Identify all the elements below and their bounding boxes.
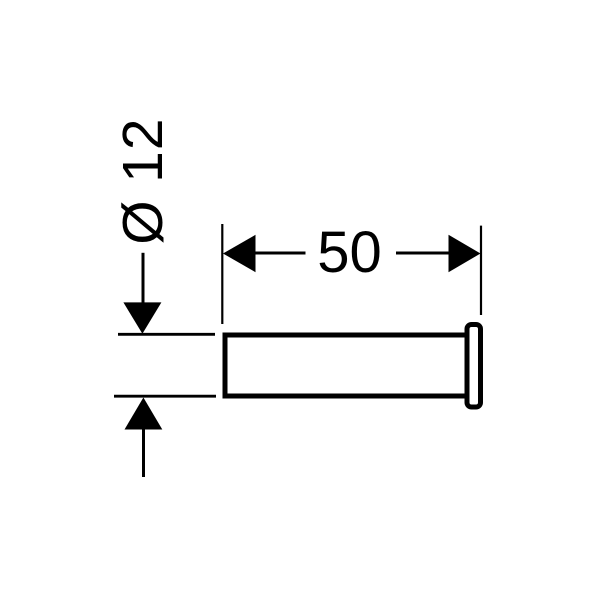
extension line right (50 dim) — [480, 226, 482, 315]
arrowhead down (points to top of body) — [123, 302, 161, 333]
extension line top (diameter) — [118, 333, 215, 336]
arrowhead right (points right) — [449, 235, 481, 272]
leader line below up arrow — [142, 429, 145, 477]
dimension line left segment — [254, 252, 306, 255]
svg-text:Ø 12: Ø 12 — [111, 118, 175, 245]
svg-text:50: 50 — [317, 220, 382, 285]
arrowhead up (points to bottom of body) — [125, 398, 163, 430]
flange cap at right end — [467, 325, 481, 408]
extension line left (50 dim) — [221, 224, 223, 324]
peg body (cylinder side view) — [225, 335, 467, 396]
dimension line right segment — [396, 252, 450, 255]
extension line bottom (diameter) — [114, 395, 216, 398]
leader line above down arrow — [142, 253, 145, 306]
arrowhead left (points left) — [223, 235, 256, 272]
